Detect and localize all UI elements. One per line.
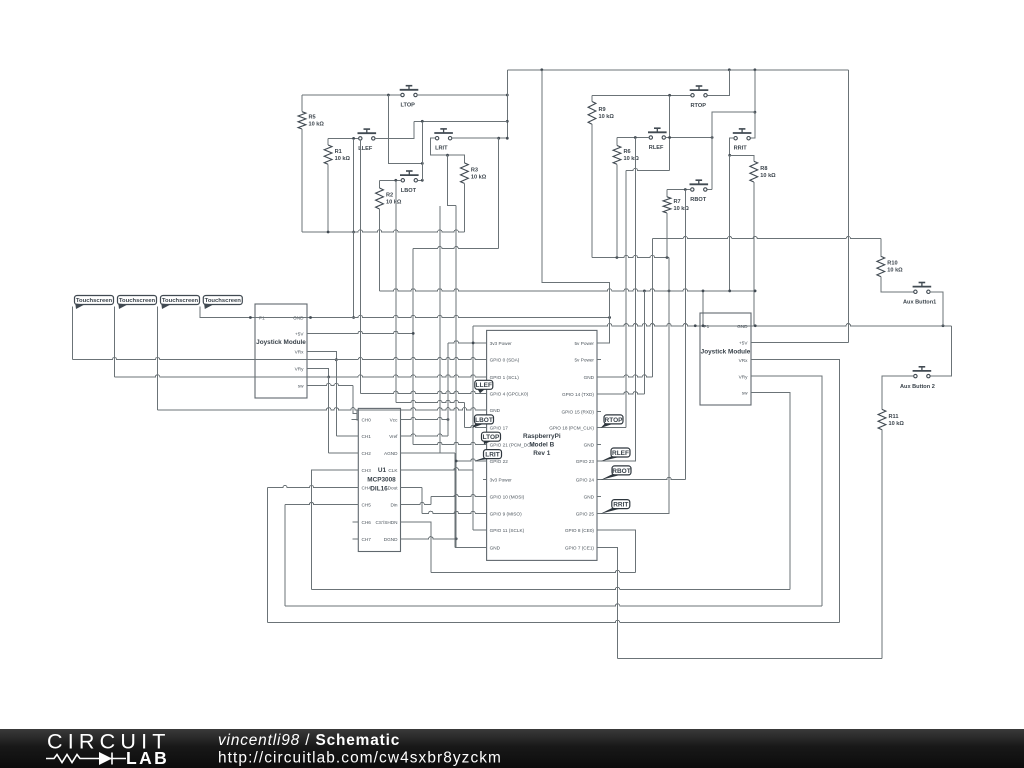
pin stub right (401, 452, 408, 454)
wire R11 bottom (881, 430, 883, 659)
wire LRIT right (452, 137, 508, 139)
pin CH1 stub (352, 435, 359, 437)
wire P1 stub (248, 317, 255, 319)
wire R1 bottom (327, 164, 329, 232)
wire RRIT left (730, 138, 734, 155)
wire CLK-3v3 column (472, 326, 474, 470)
pin CH2 stub (352, 452, 359, 454)
wire GND drop to rail (353, 140, 355, 232)
wire RTOP right (708, 70, 730, 96)
net flag LTOP (482, 432, 501, 444)
wire loop2 (312, 587, 790, 589)
node R6 tie (616, 256, 619, 259)
pin stub right (401, 504, 408, 506)
wire R6 bottom (616, 164, 618, 257)
raspberry pi box (487, 330, 597, 560)
node VRx join (335, 358, 338, 361)
wire +5V right (751, 342, 848, 344)
node DGND tie (455, 537, 458, 540)
wire VRy stub jog (307, 369, 329, 378)
pin stub (597, 427, 604, 429)
wire LTOP left rail (302, 94, 401, 96)
node LRIT-R3 tap (446, 154, 449, 157)
node GND-TXD (643, 290, 646, 293)
wire RTOP left rail (592, 94, 691, 96)
wire GPIO21 line (413, 442, 486, 444)
node right jog (754, 111, 757, 114)
pin stub (480, 427, 487, 429)
node rail-RTOP (728, 68, 731, 71)
pin stub right (401, 538, 408, 540)
net flag RLEF (601, 448, 631, 461)
wire sw stub jog (307, 383, 358, 420)
wire CH4 line (268, 486, 359, 623)
wire sw right (751, 392, 790, 589)
pin CH7 stub NC (353, 538, 359, 540)
wire LRIT left jog (431, 138, 465, 163)
pin stub (480, 342, 487, 344)
wire CE0 link (604, 530, 636, 573)
wire R3 bottom leg (463, 183, 465, 232)
touchscreen flag 2 (118, 296, 157, 310)
wire VRy-CH2 column (328, 377, 330, 453)
resistor R7 (663, 197, 689, 213)
wire +5V column (506, 70, 508, 138)
wire RLEF right (665, 137, 712, 139)
wire R7 bottom (666, 213, 668, 258)
node 3v3-CLK (472, 342, 475, 345)
node joystick GND tie (352, 316, 355, 319)
pin stub (480, 546, 487, 548)
pin stub (597, 546, 604, 548)
node RLEF-RBOT tie (711, 136, 714, 139)
wire R2 bottom (379, 209, 381, 291)
pi pin labels (490, 341, 595, 551)
pin stub (480, 496, 487, 498)
pin stub (597, 393, 604, 395)
wire RRIT net column (729, 155, 731, 291)
wire SCL line (115, 375, 487, 377)
wire VRx right (751, 360, 840, 623)
node GPIO22 tap (455, 460, 458, 463)
wire loop4 (268, 620, 840, 622)
resistor R9 (588, 102, 614, 125)
node GND-R8 (754, 290, 757, 293)
node rail GND tie (352, 231, 355, 234)
wire GPIO23 link (604, 138, 636, 462)
wire CH1 line (336, 435, 358, 437)
net flag RTOP (601, 415, 624, 428)
wire Dout link (407, 488, 486, 514)
touchscreen flag 3 (161, 296, 200, 310)
svg-text:http://circuitlab.com/cw4sxbr8: http://circuitlab.com/cw4sxbr8yzckm (218, 750, 502, 767)
wire LLEF left (328, 137, 359, 139)
pin CH3 stub (352, 469, 359, 471)
pin stub (480, 376, 487, 378)
wire LTOP right (417, 94, 507, 96)
U1 pin labels (362, 418, 399, 542)
wire LRIT stair (413, 138, 499, 249)
pin stub (480, 529, 487, 531)
wire aux column (439, 206, 441, 453)
node R7 tie (666, 256, 669, 259)
wire R8 link (730, 155, 754, 161)
wire aux2 left (882, 376, 914, 409)
CircuitLab logo (46, 730, 171, 768)
joystick module 2 box (700, 313, 751, 405)
wire GPIO18 link (604, 427, 627, 429)
wire R9 GND link (592, 255, 669, 257)
wire AGND link (407, 453, 480, 548)
wire touchscreen2 drop (114, 307, 116, 378)
node GND stub (309, 316, 312, 319)
net flag LRIT (474, 450, 502, 461)
wire LTOP net column (421, 121, 423, 180)
wire RBOT net column (684, 190, 686, 480)
wire LLEF right riser (375, 121, 414, 138)
node LRIT stair tap (497, 137, 500, 140)
pin stub right (401, 419, 408, 421)
wire Vref link (407, 343, 448, 436)
wire R9 bottom (591, 124, 593, 257)
wire aux1 right (930, 292, 944, 326)
node rail-right drop (754, 68, 757, 71)
pin stub (597, 529, 604, 531)
pushbutton LLEF (358, 129, 377, 152)
node RLEF-RTOP cross (668, 136, 671, 139)
net flag RBOT (601, 466, 632, 480)
wire RRIT right link (750, 112, 755, 138)
node LTOP-left junction (387, 94, 390, 97)
node rail-GND drop (540, 68, 543, 71)
wire RTOP net stair (626, 95, 669, 427)
node RBOT net tap (684, 188, 687, 191)
wire R10 rail (652, 236, 881, 238)
wire RLEF left (617, 137, 649, 139)
node +5V rail2 (506, 120, 509, 123)
resistor R2 (376, 188, 402, 209)
wire R9 bus drop (668, 258, 670, 291)
wire top rail (507, 69, 848, 71)
node Vcc-5V (447, 418, 450, 421)
net flag LBOT (472, 415, 494, 428)
node +5V column top (506, 94, 509, 97)
wire loop3 (285, 604, 822, 606)
pin stub (480, 392, 487, 394)
wire R10 bottom (881, 277, 914, 292)
wire GPIO24 link (604, 477, 686, 479)
node VRy join (327, 376, 330, 379)
node aux1 tie (942, 324, 945, 327)
wire DGND link (407, 537, 456, 539)
wire F3-GND line (158, 408, 487, 410)
wire GND line (255, 315, 610, 317)
pin stub right (401, 435, 408, 437)
pin stub NC (597, 496, 601, 498)
pin stub (480, 512, 487, 514)
wire CE1 link (604, 547, 618, 658)
wire loop1 (431, 570, 636, 572)
node P1 feed top (702, 290, 705, 293)
wire GPIO22 line (456, 459, 486, 461)
wire P1 feed (702, 291, 704, 326)
wire SDA line (73, 358, 487, 360)
pin stub NC (597, 443, 601, 445)
op-amp U1 MCP3008 box (358, 408, 400, 551)
wire rail right drop (847, 70, 849, 343)
wire LBOT-GPIO17 (465, 403, 487, 428)
wire CH5 line (285, 502, 358, 606)
wire GND rail to joystick (353, 232, 355, 318)
wire RBOT feed (712, 112, 755, 189)
node R1-rail (327, 231, 330, 234)
wire LRIT net jog (448, 155, 457, 205)
wire R5 bottom (301, 129, 303, 232)
pushbutton LBOT (400, 171, 419, 194)
pin CH5 stub (352, 504, 359, 506)
wire touchscreen3 drop (157, 307, 159, 410)
wire LBOT right (417, 179, 422, 181)
resistor R3 (461, 163, 487, 184)
pin stub (480, 409, 487, 411)
wire LTOP stair (388, 95, 422, 163)
wire touchscreen1 drop (72, 307, 74, 360)
wire DGND to Pi GND (456, 539, 486, 548)
wire second rail (414, 120, 508, 122)
node RTOP-left junction (668, 94, 671, 97)
pin stub NC (483, 479, 487, 481)
pin stub (597, 376, 604, 378)
pin stub (597, 512, 604, 514)
wire touchscreen4 drop (200, 307, 248, 318)
wire LBOT left (380, 179, 402, 181)
resistor R11 (878, 409, 904, 429)
pin stub (480, 359, 487, 361)
wire GND bus (380, 289, 756, 291)
pin stub right (401, 469, 408, 471)
node GND-5v jog (608, 316, 611, 319)
resistor R8 (750, 161, 776, 182)
pushbutton AuxButton1 (903, 283, 936, 306)
pushbutton LRIT (434, 129, 453, 152)
resistor R1 (324, 145, 350, 164)
wire LBOT net column (395, 180, 397, 402)
node R8 tie (728, 154, 731, 157)
pushbutton RTOP (690, 86, 709, 109)
node LRIT +5V tie (506, 137, 509, 140)
node GND-2 (754, 324, 757, 327)
pin stub NC (597, 411, 601, 413)
wire LBOT stair (396, 400, 465, 402)
wire R9 top (591, 95, 593, 101)
wire R5 top (301, 95, 303, 112)
node P1 (249, 316, 252, 319)
pin CH4 stub (352, 487, 359, 489)
wire loop5 (618, 658, 882, 660)
node LBOT-LTOP tie (421, 179, 424, 182)
wire Vcc link (407, 417, 448, 419)
wire LRIT-R10 column (455, 205, 457, 538)
wire CH2 line (329, 452, 359, 454)
node P1-2 (694, 324, 697, 327)
node LTOP net drop (421, 120, 424, 123)
wire CLK link (407, 468, 473, 530)
wire VRx-CH1 column (335, 360, 337, 436)
svg-text:LAB: LAB (126, 748, 169, 768)
touchscreen flag 1 (75, 296, 114, 310)
resistor R10 (877, 256, 903, 276)
pin stub (597, 479, 604, 481)
wire CH3 line (312, 470, 359, 590)
wire aux2 right (930, 326, 952, 376)
wire R10 top (880, 239, 882, 257)
node P1 feed bottom (702, 324, 705, 327)
footer text (218, 732, 502, 767)
pin CH0 stub (352, 419, 359, 421)
pin CH6 stub NC (353, 521, 359, 523)
wire R8 bottom (753, 182, 755, 326)
pin stub right (401, 521, 408, 523)
pushbutton LTOP (400, 86, 419, 109)
wire LLEF net drop (359, 140, 361, 393)
node LLEF-R1 junction (352, 137, 355, 140)
pin stub (597, 342, 604, 344)
wire VRx stub jog (307, 352, 336, 360)
pin stub (597, 460, 604, 462)
pushbutton RLEF (648, 128, 667, 151)
svg-text:vincentli98 / Schematic: vincentli98 / Schematic (218, 732, 400, 749)
wire GPIO25 link (604, 291, 669, 514)
wire CS link (407, 522, 431, 573)
touchscreen flag 4 (203, 296, 242, 310)
wire R1 top (327, 138, 329, 145)
resistor R5 (298, 112, 324, 129)
net flag RRIT (601, 500, 630, 514)
wire RBOT right (707, 189, 712, 191)
wire RBOT left (667, 189, 691, 191)
joystick module 1 box (255, 304, 307, 398)
wire R2 top (379, 180, 381, 188)
wire 5v jog stub (604, 342, 610, 344)
resistor R6 (613, 146, 639, 165)
wire rail 5v jog (542, 70, 610, 343)
wire R7 top (666, 190, 668, 197)
node GND-RRIT (728, 290, 731, 293)
pin stub (480, 460, 487, 462)
net flag LLEF (475, 380, 493, 393)
node RLEF net tap (634, 136, 637, 139)
wire R6 top (616, 138, 618, 146)
wire PiGND right (604, 239, 653, 377)
pushbutton AuxButton2 (900, 367, 935, 390)
pin stub right (401, 487, 408, 489)
wire CH0 branch (356, 410, 358, 414)
wire GPIO4 line (360, 391, 486, 393)
pin stub NC (597, 359, 601, 361)
wire SCLK link (473, 529, 487, 531)
pushbutton RRIT (733, 129, 752, 152)
node GND-GPIO25 (668, 290, 671, 293)
wire VRy right (751, 376, 822, 606)
pin stub (480, 443, 487, 445)
wire 3v3 line (448, 341, 487, 343)
wire +5V feed (307, 324, 951, 334)
pushbutton RBOT (690, 180, 709, 203)
node 5V stair tie (412, 332, 415, 335)
wire stair to GPIO21 (412, 249, 414, 445)
wire left GND rail (302, 230, 464, 232)
node stair tie (421, 162, 424, 165)
wire Din link (407, 495, 486, 505)
wire TXD link (604, 291, 645, 394)
node LBOT net tap (394, 179, 397, 182)
wire right drop jog (754, 70, 756, 112)
